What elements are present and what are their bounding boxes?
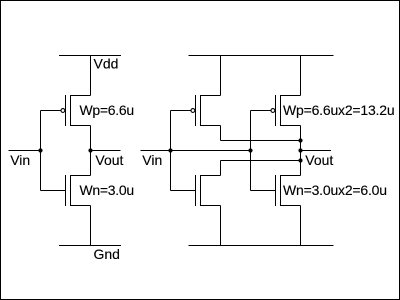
svg-text:Vin: Vin [10, 152, 30, 168]
svg-text:Vdd: Vdd [94, 56, 119, 72]
svg-text:Vin: Vin [142, 152, 162, 168]
svg-text:Vout: Vout [305, 152, 333, 168]
svg-text:Wp=6.6ux2=13.2u: Wp=6.6ux2=13.2u [283, 102, 394, 118]
svg-text:Gnd: Gnd [94, 246, 120, 262]
svg-text:Wn=3.0u: Wn=3.0u [80, 182, 134, 198]
svg-text:Wn=3.0ux2=6.0u: Wn=3.0ux2=6.0u [283, 182, 387, 198]
svg-text:Vout: Vout [95, 152, 123, 168]
svg-text:Wp=6.6u: Wp=6.6u [80, 102, 134, 118]
